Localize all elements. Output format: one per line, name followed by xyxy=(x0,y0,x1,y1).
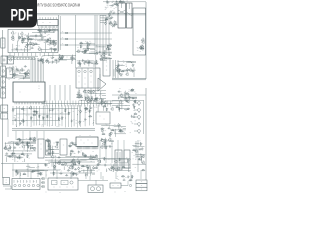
resistor R44 xyxy=(85,97,87,101)
capacitor C95 xyxy=(78,151,81,154)
wire xyxy=(86,92,88,98)
wire xyxy=(6,156,17,158)
wire label smudges xyxy=(130,111,136,133)
wire right verticals xyxy=(113,60,118,78)
resistor R20 xyxy=(107,45,109,49)
wire label smudges xyxy=(5,153,30,161)
wire xyxy=(28,33,30,42)
wire speaker feed xyxy=(78,176,108,185)
node junction xyxy=(92,121,95,124)
wire xyxy=(56,60,58,64)
transistor Q26 xyxy=(76,49,79,53)
capacitor CE30 xyxy=(127,68,130,72)
wire label smudges xyxy=(8,139,36,152)
node junction xyxy=(12,108,15,111)
resistor R86 xyxy=(27,141,29,145)
resistor R127 xyxy=(32,170,36,172)
wire xyxy=(15,171,40,173)
capacitor C119 xyxy=(76,173,79,176)
connector JACK3 xyxy=(1,88,6,98)
transistor Q41 xyxy=(103,101,106,105)
transistor Q13 xyxy=(12,75,15,79)
wire xyxy=(95,98,106,100)
wire right hline B xyxy=(112,100,144,102)
node junction xyxy=(15,74,18,77)
capacitor C2 xyxy=(49,29,52,32)
resistor R23 xyxy=(105,18,109,20)
wire xyxy=(141,156,143,163)
resistor R121 xyxy=(8,156,12,158)
wire mid bus line 1 xyxy=(12,128,95,130)
resistor R82 xyxy=(15,142,19,144)
wire xyxy=(8,141,36,143)
wire xyxy=(9,69,25,71)
wire chain xyxy=(55,105,57,126)
wire chain xyxy=(12,106,14,125)
wire xyxy=(103,50,105,61)
wire xyxy=(43,30,45,34)
capacitor C73 xyxy=(119,128,122,131)
connector tuner stubs xyxy=(100,16,106,23)
capacitor C99 xyxy=(95,166,98,168)
capacitor CE14 xyxy=(59,57,62,61)
connector JACK1 xyxy=(1,66,6,76)
wire xyxy=(132,163,146,165)
wire xyxy=(14,156,24,158)
node junction xyxy=(6,145,9,148)
wire xyxy=(96,46,106,48)
wire xyxy=(119,162,129,164)
wire xyxy=(79,99,98,101)
resistor R45 xyxy=(94,98,98,100)
resistor R125 xyxy=(16,169,18,173)
wire xyxy=(24,144,29,146)
resistor R85 xyxy=(27,143,29,147)
wire xyxy=(50,161,73,163)
resistor R98 xyxy=(70,142,74,144)
resistor R134 xyxy=(119,1,123,3)
resistor R32 xyxy=(84,49,88,51)
wire label smudges xyxy=(78,60,96,67)
resistor R11 xyxy=(13,73,15,77)
wire drop lines xyxy=(20,170,141,179)
wire xyxy=(48,61,50,64)
capacitor CE48 xyxy=(112,167,115,171)
wire xyxy=(87,170,89,176)
wire xyxy=(33,146,36,148)
wire xyxy=(26,44,28,52)
wire xyxy=(128,61,134,63)
wire bottom rail 1 xyxy=(1,163,50,165)
capacitor C92 xyxy=(95,155,98,157)
wire chain xyxy=(93,105,95,126)
capacitor C98 xyxy=(109,145,112,148)
wire chain xyxy=(38,106,40,125)
transistor Q2 xyxy=(11,37,14,41)
wire xyxy=(105,138,107,146)
resistor R118 xyxy=(27,154,29,158)
wire xyxy=(93,62,95,65)
wire label smudges xyxy=(95,45,110,60)
wire chain xyxy=(80,105,82,127)
capacitor C111 xyxy=(19,155,22,158)
IF can T1 xyxy=(118,3,126,28)
capacitor C70 xyxy=(120,130,123,132)
wire xyxy=(117,60,131,62)
resistor R101 xyxy=(72,166,74,170)
wire xyxy=(89,43,96,45)
wire xyxy=(78,90,80,98)
transistor Q7 xyxy=(25,45,28,49)
capacitor C126 xyxy=(115,3,118,5)
capacitor CE8 xyxy=(27,43,30,47)
wire xyxy=(106,140,114,142)
wire IC top bus xyxy=(31,58,43,80)
capacitor C101 xyxy=(97,163,100,166)
capacitor C33 xyxy=(109,18,112,20)
resistor R54 xyxy=(36,110,38,114)
capacitor CE34 xyxy=(80,110,83,114)
wire xyxy=(104,103,106,108)
resistor R72 xyxy=(103,105,107,107)
wire xyxy=(83,52,95,54)
resistor R112 xyxy=(122,166,126,168)
transistor Q53 xyxy=(58,160,61,164)
wire xyxy=(59,59,77,61)
resistor R120 xyxy=(12,152,16,154)
capacitor C4 xyxy=(31,47,34,49)
wire xyxy=(102,52,112,54)
connector P2 xyxy=(1,56,7,64)
wire chain xyxy=(36,106,38,126)
node junction xyxy=(107,167,110,170)
transistor Q24 xyxy=(141,40,144,44)
wire chain xyxy=(84,105,86,126)
capacitor C121 xyxy=(59,173,62,175)
wire xyxy=(90,48,95,50)
resistor R94 xyxy=(73,144,77,146)
resistor R91 xyxy=(48,143,50,147)
wire xyxy=(80,64,82,67)
capacitor C46 xyxy=(86,41,89,44)
resistor R19 xyxy=(99,58,103,60)
wire chain xyxy=(61,105,63,126)
wire chain xyxy=(58,105,60,127)
resistor R60 xyxy=(65,109,67,113)
wire xyxy=(104,139,106,149)
wire xyxy=(108,45,113,47)
transformer T303 xyxy=(46,140,51,155)
resistor R7 xyxy=(29,38,33,40)
resistor R128 xyxy=(53,171,55,175)
wire xyxy=(96,51,112,53)
wire label smudges xyxy=(14,107,43,126)
block chroma box xyxy=(59,15,96,55)
transistor Q14 xyxy=(20,68,23,72)
wire bottom hline B xyxy=(48,161,95,163)
capacitor CE44 xyxy=(54,165,57,169)
resistor R79 xyxy=(134,113,138,115)
wire xyxy=(44,43,46,52)
resistor R104 xyxy=(61,164,65,166)
capacitor C18 xyxy=(52,60,55,63)
wire xyxy=(54,59,67,61)
capacitor C93 xyxy=(84,155,87,157)
capacitor C59 xyxy=(84,118,87,121)
wire top bus line 1 xyxy=(37,12,146,14)
wire xyxy=(77,60,94,62)
capacitor C52 xyxy=(118,96,121,99)
node junction xyxy=(98,94,101,97)
wire label smudges xyxy=(136,41,143,52)
wire top bus line 2 xyxy=(37,14,146,16)
wire xyxy=(13,142,15,152)
resistor R35 xyxy=(79,42,83,44)
capacitor C36 xyxy=(109,11,112,13)
op-amp U201 IF IC xyxy=(38,17,59,28)
resistor R84 xyxy=(33,139,37,141)
capacitor C13 xyxy=(24,65,27,67)
transistor Q34 xyxy=(119,93,122,97)
transistor Q60 xyxy=(102,142,105,146)
node junction xyxy=(9,66,12,69)
wire xyxy=(29,145,34,147)
capacitor C82 xyxy=(30,138,33,141)
capacitor C64 xyxy=(33,110,36,112)
wire chain xyxy=(73,105,75,126)
wire chroma edge drop xyxy=(95,55,97,99)
resistor R26 xyxy=(95,62,99,64)
wire xyxy=(118,103,120,112)
capacitor CE10 xyxy=(41,59,44,63)
wire xyxy=(102,107,104,111)
wire xyxy=(30,137,36,139)
capacitor C66 xyxy=(125,100,128,102)
capacitor C47 xyxy=(91,97,94,100)
resistor R122 xyxy=(20,153,24,155)
node junction xyxy=(125,65,128,68)
capacitor CE41 xyxy=(34,147,37,151)
resistor R15 xyxy=(40,59,44,61)
capacitor C30 xyxy=(109,14,112,17)
wire xyxy=(99,91,101,99)
resistor R129 xyxy=(72,173,76,175)
transistor Q65 xyxy=(141,155,144,159)
wire mid horizontal A xyxy=(12,108,78,110)
resistor R89 xyxy=(10,146,12,150)
wire label smudges xyxy=(96,100,128,111)
wire xyxy=(27,141,29,152)
transistor Q50 xyxy=(51,155,54,159)
resistor R115 xyxy=(141,169,145,171)
transistor Q46 xyxy=(55,145,58,149)
wire xyxy=(25,72,27,77)
wire chain xyxy=(89,105,91,126)
capacitor C58 xyxy=(71,119,74,122)
transistor QV3 xyxy=(134,116,140,120)
wire xyxy=(115,129,117,137)
capacitor C96 xyxy=(89,155,92,157)
wire label smudges xyxy=(85,108,93,113)
resistor R131 xyxy=(121,1,125,3)
capacitor C22 xyxy=(54,59,57,61)
transistor Q11 xyxy=(13,72,16,76)
wire label smudges xyxy=(45,156,97,169)
resistor R123 xyxy=(23,173,27,175)
wire xyxy=(15,74,24,76)
block tuner box xyxy=(133,8,146,55)
capacitor C48 xyxy=(132,70,135,73)
capacitor CE2 xyxy=(39,30,42,34)
wire xyxy=(106,100,123,102)
transistor Q35 xyxy=(29,106,32,110)
resistor R37 xyxy=(80,45,82,49)
resistor R49 xyxy=(125,92,129,94)
label bottom note xyxy=(45,192,125,193)
capacitor C100 xyxy=(111,167,114,169)
wire chain xyxy=(16,106,18,127)
transistor Q37 xyxy=(100,100,103,104)
wire xyxy=(26,165,30,167)
wire xyxy=(89,53,95,55)
wire xyxy=(80,43,91,45)
resistor R65 xyxy=(88,115,92,117)
wire bottom hline A xyxy=(45,157,96,159)
wire xyxy=(126,60,136,62)
wire label smudges xyxy=(78,151,97,157)
capacitor C54 xyxy=(118,91,121,93)
capacitor CE38 xyxy=(33,137,36,141)
transformer T402 xyxy=(124,150,130,168)
resistor R34 xyxy=(85,50,87,54)
capacitor C114 xyxy=(44,163,47,166)
resistor R83 xyxy=(30,147,34,149)
resistor R1 xyxy=(48,29,52,31)
wire xyxy=(135,141,137,158)
wire xyxy=(112,102,123,104)
transistor Q61 xyxy=(97,159,100,163)
wire xyxy=(25,76,30,78)
capacitor CE7 xyxy=(22,40,25,44)
wire xyxy=(128,94,130,98)
capacitor CE43 xyxy=(78,167,81,171)
connector P1 xyxy=(1,38,5,48)
capacitor C62 xyxy=(20,122,23,125)
wire xyxy=(17,41,19,52)
resistor R88 xyxy=(16,144,20,146)
wire xyxy=(102,139,108,141)
wire bottom verticals xyxy=(100,140,124,163)
wire xyxy=(110,129,126,131)
resistor R66 xyxy=(33,111,37,113)
wire label smudges xyxy=(97,158,131,171)
wire xyxy=(53,170,55,176)
transistor Q19 xyxy=(106,47,109,51)
wire right column rail xyxy=(143,100,145,134)
node junction xyxy=(72,164,75,167)
capacitor C61 xyxy=(85,108,88,111)
capacitor C25 xyxy=(105,57,108,60)
resistor R22 xyxy=(109,23,113,25)
resistor R95 xyxy=(68,144,72,146)
wire xyxy=(124,109,129,111)
wire xyxy=(39,31,45,33)
wire xyxy=(102,94,106,96)
capacitor C71 xyxy=(118,130,121,132)
wire label smudges xyxy=(104,5,117,26)
resistor R21 xyxy=(95,52,99,54)
node junction xyxy=(11,156,14,159)
resistor R81 xyxy=(17,138,21,140)
wire xyxy=(56,141,59,143)
resistor R124 xyxy=(40,172,42,176)
wire xyxy=(119,108,130,110)
node junction xyxy=(130,61,133,64)
resistor R126 xyxy=(17,171,19,175)
CRT electron gun xyxy=(98,74,106,91)
wire xyxy=(114,126,126,128)
wire xyxy=(20,173,22,176)
resistor R3 xyxy=(53,48,57,50)
resistor R106 xyxy=(82,152,84,156)
transistor Q27 xyxy=(86,100,89,104)
transistor Q32 xyxy=(116,69,119,73)
capacitor C37 xyxy=(109,21,112,23)
transistor Q43 xyxy=(4,146,7,150)
wire label smudges xyxy=(101,139,113,148)
wire xyxy=(121,104,123,110)
wire xyxy=(133,67,135,77)
capacitor C108 xyxy=(5,153,8,155)
wire xyxy=(14,157,16,162)
resistor R136 xyxy=(132,175,134,179)
capacitor C14 xyxy=(23,76,26,79)
transistor Q3 xyxy=(53,42,56,46)
wire xyxy=(85,61,91,63)
wire xyxy=(92,173,95,175)
capacitor C29 xyxy=(108,54,111,56)
wire chain xyxy=(42,106,44,127)
resistor R132 xyxy=(113,3,117,5)
resistor R9 xyxy=(19,36,21,40)
capacitor C56 xyxy=(49,109,52,112)
capacitor C123 xyxy=(67,170,70,172)
transistor Q66 xyxy=(138,157,141,161)
block CRT socket board xyxy=(76,68,100,99)
resistor R76 xyxy=(100,128,104,130)
wire right section divider xyxy=(112,79,146,80)
wire label smudges xyxy=(8,66,28,79)
transistor Q22 xyxy=(141,38,144,42)
resistor R59 xyxy=(62,116,64,120)
capacitor C19 xyxy=(70,56,73,59)
wire xyxy=(135,143,140,145)
wire xyxy=(45,30,47,34)
label legend row 1 xyxy=(136,180,147,184)
transistor Q25 xyxy=(139,46,142,50)
resistor R38 xyxy=(94,98,98,100)
capacitor C104 xyxy=(138,158,141,160)
wire chain xyxy=(52,105,54,126)
capacitor C77 xyxy=(133,100,136,102)
resistor R28 xyxy=(96,60,98,64)
wire left board outline xyxy=(2,30,4,178)
capacitor CE12 xyxy=(62,55,65,59)
transistor Q20 xyxy=(102,53,105,57)
transistor Q21 xyxy=(140,44,143,48)
capacitor CE35 xyxy=(118,123,121,127)
wire xyxy=(55,162,76,164)
